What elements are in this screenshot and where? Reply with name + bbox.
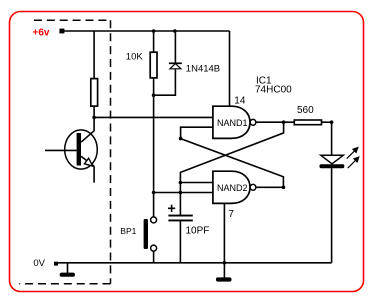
ground symbol G2 [223, 263, 225, 278]
svg-text:14: 14 [234, 95, 246, 106]
NAND2 output bubble [250, 184, 256, 190]
wire 0v bottom rail [56, 262, 332, 264]
wire LED cathode to 0v rail [331, 168, 333, 263]
node capacitor top [179, 191, 183, 195]
wire rail to R1 top [153, 31, 155, 52]
node R1/diode junction [152, 93, 156, 97]
node R3/LED [330, 120, 334, 124]
svg-text:10K: 10K [126, 52, 144, 63]
wire transistor emitter [81, 156, 94, 166]
wire capacitor bottom to 0v rail [179, 221, 181, 262]
wire R2 bottom to node [93, 106, 95, 117]
svg-text:0V: 0V [33, 258, 45, 269]
NAND1 U1A gate body [213, 106, 250, 138]
wire to BP1 top [153, 193, 155, 217]
wire cross link NAND1.B to NAND2 output [181, 139, 284, 188]
LED D2 cathode bar [320, 164, 345, 168]
wire junction to diode bottom [154, 68, 176, 95]
ground symbol G1 [67, 263, 69, 273]
svg-text:1N414B: 1N414B [186, 63, 220, 74]
wire capacitor branch [179, 183, 181, 215]
wire NAND2 input A [180, 182, 213, 184]
svg-text:+6v: +6v [33, 28, 50, 39]
resistor R2 (left, no value) [91, 79, 98, 107]
node R2/collector [92, 116, 96, 120]
wire node to NAND1 input A [94, 116, 213, 118]
svg-text:74HC00: 74HC00 [255, 85, 292, 96]
wire junction down to NAND2 input line [153, 95, 155, 192]
node NAND2 out [282, 186, 286, 190]
wire NAND2 pin7 drop [223, 203, 225, 262]
LED D2 light arrows [347, 148, 359, 169]
LED D2 triangle [321, 155, 344, 164]
transistor Q1 emitter arrow [84, 158, 92, 166]
node NAND1 out [282, 120, 286, 124]
node rail/R1 [152, 29, 156, 33]
capacitor C1 plates [168, 215, 192, 217]
NAND1 output bubble [250, 119, 256, 125]
svg-text:NAND2: NAND2 [217, 183, 248, 193]
node NAND2 inA [179, 181, 183, 185]
wire NAND1 input B elbow [181, 127, 213, 138]
diode D1 1N414B [169, 63, 182, 69]
wire R3 to LED corner [322, 121, 332, 123]
wire NAND2 output [256, 186, 284, 188]
wire NAND2 input B line [154, 192, 213, 194]
resistor R1 10K [150, 52, 157, 78]
pushbutton BP1 actuator bar [144, 219, 148, 249]
wire NAND1 output to R3 [256, 121, 294, 123]
wire transistor emitter stub [93, 166, 95, 183]
transistor Q1 body [65, 130, 98, 169]
node NAND1 inB corner [179, 137, 183, 141]
svg-text:560: 560 [297, 105, 314, 116]
wire R1 bottom to junction [153, 78, 155, 95]
node +6v terminal square [59, 29, 64, 34]
wire transistor base lead [45, 149, 77, 151]
capacitor C1 polarity plus [168, 205, 175, 212]
wire diode top to rail [174, 31, 176, 63]
wire BP1 bottom to 0v rail [153, 251, 155, 263]
wire rail to R2 top [93, 31, 95, 79]
dashed enclosure box [19, 20, 110, 284]
wire transistor collector [81, 117, 94, 142]
wire LED anode [331, 122, 333, 155]
svg-text:7: 7 [228, 209, 234, 220]
node pin7/ground [223, 261, 227, 265]
svg-text:NAND1: NAND1 [217, 118, 248, 128]
wire pin14 drop [229, 31, 231, 106]
node NAND2 inB tee [152, 191, 156, 195]
svg-text:10PF: 10PF [186, 226, 210, 237]
node rail/diode [173, 29, 177, 33]
pushbutton BP1 contacts [151, 217, 157, 223]
NAND2 U1B gate body [213, 171, 250, 203]
wire cross link NAND2.A to NAND1 output [180, 122, 283, 182]
transistor Q1 base bar [77, 133, 81, 166]
resistor R3 560 [294, 120, 321, 125]
svg-text:BP1: BP1 [120, 226, 136, 236]
node 0v terminal square [54, 262, 58, 266]
wire +6v top rail [62, 30, 230, 32]
